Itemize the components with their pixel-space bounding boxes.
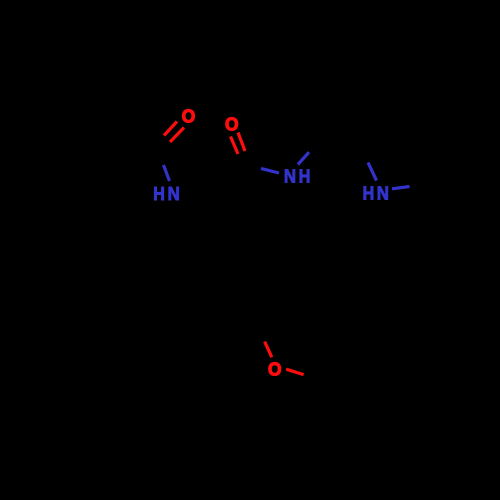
svg-text:O: O <box>268 358 282 379</box>
atom N2 label NH (second amide NH) <box>284 165 311 186</box>
bond C1=O1 double bond (red half, line 1) <box>164 122 177 136</box>
bond C6-O4 (red half going up-left) <box>265 342 272 358</box>
svg-text:N: N <box>377 182 389 203</box>
bond N2-C3 (blue half going up-right) <box>298 152 309 164</box>
svg-text:H: H <box>299 165 311 186</box>
svg-text:H: H <box>153 183 165 204</box>
svg-text:N: N <box>168 183 180 204</box>
atom N3 label HN (amine NH) <box>363 182 389 203</box>
bond C1=O1 double bond (red half, line 2) <box>170 128 184 143</box>
bond C2=O2 double bond (red half, line B) <box>238 133 245 152</box>
bond C2-N2 (blue half) <box>261 168 279 173</box>
svg-text:N: N <box>284 165 296 186</box>
bond C2=O2 double bond (red half, line A) <box>231 137 239 155</box>
atom N1 label HN (amide NH) <box>153 183 180 204</box>
bond O4-C7 (red half going right) <box>286 369 303 374</box>
bond N3-C5 (blue half going right) <box>392 187 410 189</box>
svg-text:H: H <box>363 182 375 203</box>
bond C4-N3 (blue half going up-left) <box>368 162 377 180</box>
svg-text:O: O <box>182 106 196 127</box>
svg-text:O: O <box>225 114 239 135</box>
bond C1-N1 (blue half) <box>164 165 170 181</box>
